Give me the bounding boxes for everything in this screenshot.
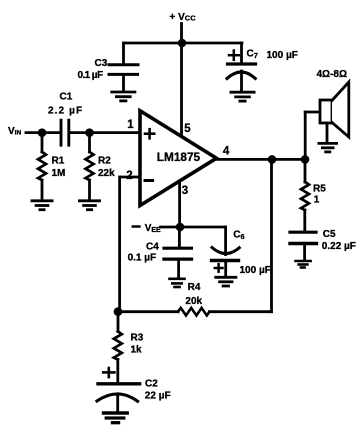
svg-text:C4: C4 [146, 241, 159, 252]
svg-text:2: 2 [126, 170, 132, 182]
svg-text:1k: 1k [131, 344, 143, 355]
svg-text:R4: R4 [188, 282, 201, 293]
svg-text:R3: R3 [131, 332, 144, 343]
svg-text:2.2 µF: 2.2 µF [48, 106, 83, 117]
svg-text:4Ω-8Ω: 4Ω-8Ω [317, 69, 348, 80]
svg-text:20k: 20k [185, 296, 202, 307]
svg-text:100 µF: 100 µF [267, 50, 298, 61]
svg-text:1M: 1M [52, 168, 66, 179]
svg-text:22k: 22k [98, 168, 115, 179]
svg-text:+ VCC: + VCC [170, 12, 197, 23]
svg-text:C1: C1 [60, 92, 73, 103]
svg-text:LM1875: LM1875 [157, 150, 201, 164]
svg-text:22 µF: 22 µF [145, 391, 171, 402]
svg-text:0.1 µF: 0.1 µF [128, 253, 157, 264]
svg-text:C5: C5 [323, 229, 336, 240]
svg-text:0.22 µF: 0.22 µF [322, 241, 356, 252]
svg-text:0.1 µF: 0.1 µF [78, 70, 103, 81]
svg-text:C3: C3 [95, 58, 108, 69]
svg-text:5: 5 [184, 123, 191, 135]
svg-text:1: 1 [314, 194, 320, 205]
svg-text:C6: C6 [233, 230, 244, 242]
svg-text:R1: R1 [52, 155, 65, 166]
svg-text:R5: R5 [313, 183, 326, 194]
svg-text:C2: C2 [145, 379, 158, 390]
svg-text:4: 4 [223, 145, 230, 157]
svg-text:1: 1 [127, 119, 134, 131]
svg-text:100 µF: 100 µF [240, 265, 271, 276]
svg-text:C7: C7 [247, 49, 258, 61]
svg-text:3: 3 [182, 185, 188, 197]
svg-text:R2: R2 [98, 155, 111, 166]
